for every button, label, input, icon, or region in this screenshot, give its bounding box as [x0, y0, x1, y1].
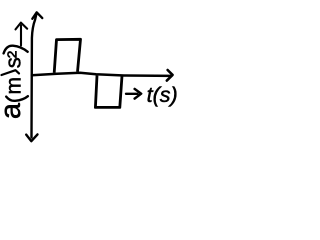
svg-text:a: a: [0, 102, 27, 119]
label slash of m/s: [2, 70, 20, 75]
negative acceleration pulse: [95, 76, 122, 108]
svg-text:²: ²: [3, 51, 28, 58]
axis arrowhead bottom: [26, 134, 37, 141]
label paren ): [4, 46, 28, 54]
label arrow up: [16, 23, 28, 46]
positive acceleration pulse: [54, 39, 80, 73]
svg-text:t(s): t(s): [147, 83, 178, 107]
label arrow right: [126, 89, 141, 99]
svg-text:m: m: [3, 77, 26, 95]
vertical axis a: [32, 13, 37, 137]
horizontal axis t: [32, 73, 171, 76]
axis arrowhead right: [167, 70, 173, 81]
axis arrowhead top: [32, 12, 42, 18]
label paren (: [6, 96, 28, 101]
label a(m/s²): [0, 51, 28, 119]
